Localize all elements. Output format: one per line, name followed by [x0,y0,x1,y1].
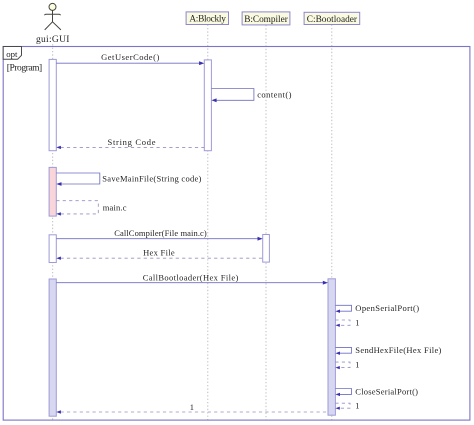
svg-text:C:Bootloader: C:Bootloader [307,15,358,25]
self return main.c [56,201,98,214]
svg-text:GetUserCode(): GetUserCode() [101,52,159,62]
object box C:Bootloader [304,12,360,24]
svg-text:1: 1 [355,400,359,410]
svg-text:opt: opt [6,49,18,59]
object box A:Blockly [186,12,228,25]
lifeline gui [52,44,54,420]
svg-text:B:Compiler: B:Compiler [244,15,288,25]
activation bar C:Bootloader [328,279,335,415]
activation bar gui (GetUserCode caller) [49,59,56,150]
object box B:Compiler [242,12,290,25]
svg-text:1: 1 [355,360,359,370]
svg-text:1: 1 [355,317,359,327]
return 1 (bootloader to gui) [61,411,329,413]
svg-text:SendHexFile(Hex File): SendHexFile(Hex File) [355,345,441,355]
activation bar gui thread (pink) [49,167,56,216]
svg-text:main.c: main.c [103,202,127,212]
lifeline B:Compiler [265,25,267,420]
svg-text:[Program]: [Program] [7,64,42,74]
svg-text:content(): content() [257,89,291,99]
svg-text:SaveMainFile(String code): SaveMainFile(String code) [102,173,201,183]
message CallBootloader(Hex File) [56,282,323,284]
message CallCompiler(File main.c) [56,238,258,240]
return Hex File [61,257,263,259]
activation bar gui (CallBootloader caller) [49,279,56,416]
self return 1 (send) [335,362,350,368]
self message OpenSerialPort() [335,305,351,311]
activation bar gui (CallCompiler caller) [49,235,56,263]
self message SendHexFile(Hex File) [335,347,351,353]
activation bar B:Compiler [263,235,270,263]
svg-text:1: 1 [190,402,194,412]
lifeline C:Bootloader [331,25,333,420]
svg-text:Hex File: Hex File [143,248,175,258]
self message SaveMainFile(String code) [56,173,100,184]
activation bar A:Blockly [204,60,211,151]
actor gui [44,3,61,30]
svg-text:CallBootloader(Hex File): CallBootloader(Hex File) [143,272,239,282]
svg-text:A:Blockly: A:Blockly [189,15,226,25]
self return 1 (open) [335,320,350,325]
self return 1 (close) [335,403,350,408]
self message content() [211,89,254,101]
svg-text:gui:GUI: gui:GUI [36,35,69,45]
opt pentagon label [3,47,21,60]
svg-text:CallCompiler(File main.c): CallCompiler(File main.c) [114,228,207,238]
return String Code [61,146,205,148]
self message CloseSerialPort() [335,389,351,395]
lifeline A:Blockly [207,25,209,420]
svg-text:String Code: String Code [108,137,156,147]
svg-text:OpenSerialPort(): OpenSerialPort() [355,303,419,313]
svg-text:CloseSerialPort(): CloseSerialPort() [355,386,418,396]
message GetUserCode() [56,62,199,64]
